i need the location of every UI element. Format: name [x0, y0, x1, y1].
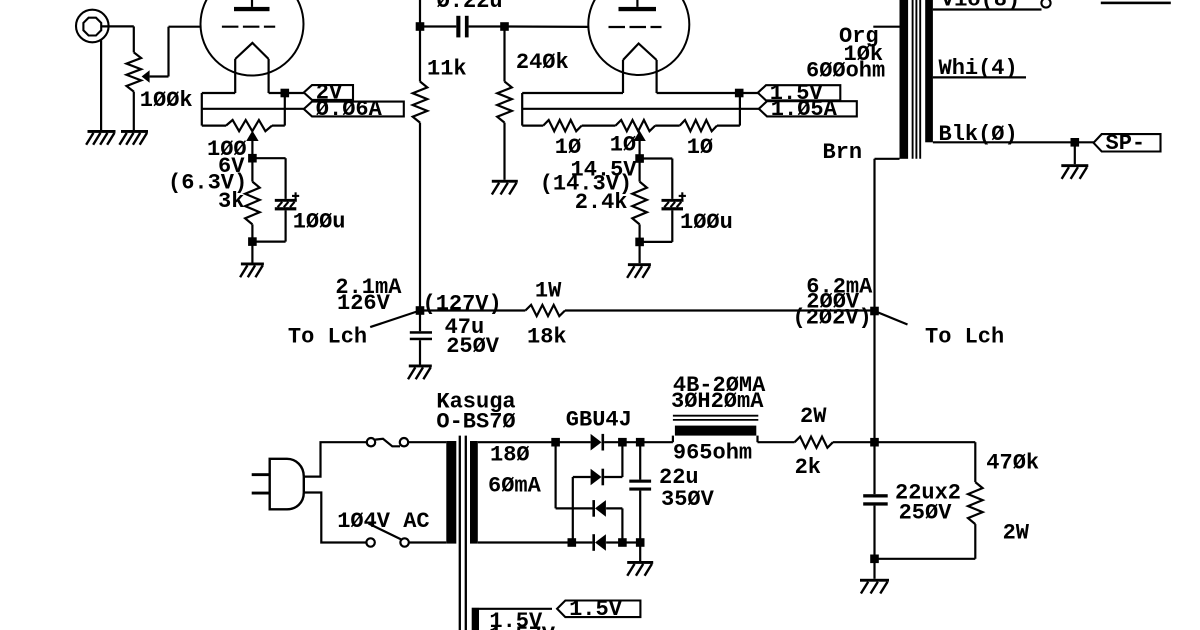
svg-text:Ø.22u: Ø.22u [437, 0, 503, 14]
svg-text:SP-: SP- [1106, 131, 1146, 156]
svg-text:Vio(8): Vio(8) [941, 0, 1020, 13]
svg-text:47Øk: 47Øk [986, 451, 1039, 476]
svg-text:126V: 126V [337, 291, 391, 316]
svg-text:6ØmA: 6ØmA [488, 474, 542, 499]
svg-text:1Ø: 1Ø [555, 135, 581, 160]
svg-text:1ØØu: 1ØØu [680, 210, 733, 235]
svg-text:11k: 11k [427, 57, 467, 82]
svg-text:2W: 2W [800, 404, 827, 429]
svg-text:O-BS7Ø: O-BS7Ø [436, 410, 515, 435]
svg-text:To Lch: To Lch [925, 325, 1004, 350]
svg-text:1ØØu: 1ØØu [293, 210, 346, 235]
svg-text:(127V): (127V) [423, 292, 502, 317]
svg-text:1Ø4V AC: 1Ø4V AC [337, 509, 429, 534]
svg-text:(2Ø2V): (2Ø2V) [793, 306, 872, 331]
svg-text:1Ø: 1Ø [610, 132, 636, 157]
svg-text:2W: 2W [1003, 521, 1030, 546]
svg-text:Whi(4): Whi(4) [939, 56, 1018, 81]
svg-text:25ØV: 25ØV [899, 501, 953, 526]
svg-text:2k: 2k [795, 455, 821, 480]
svg-text:965ohm: 965ohm [673, 441, 752, 466]
svg-text:24Øk: 24Øk [516, 50, 569, 75]
svg-text:Blk(Ø): Blk(Ø) [939, 122, 1018, 147]
svg-text:1.5V: 1.5V [569, 597, 623, 622]
svg-text:1Ø: 1Ø [687, 135, 713, 160]
svg-text:35ØV: 35ØV [661, 487, 715, 512]
svg-text:2.4k: 2.4k [575, 190, 628, 215]
svg-text:To Lch: To Lch [288, 324, 367, 349]
svg-text:1W: 1W [535, 278, 562, 303]
svg-text:18Ø: 18Ø [490, 443, 530, 468]
svg-text:6ØØohm: 6ØØohm [806, 59, 885, 84]
svg-text:25ØV: 25ØV [446, 334, 500, 359]
svg-text:3k: 3k [218, 189, 244, 214]
svg-text:Brn: Brn [823, 140, 863, 165]
svg-text:1.Ø5A: 1.Ø5A [771, 97, 838, 122]
svg-text:3ØH2ØmA: 3ØH2ØmA [671, 389, 764, 414]
svg-text:Ø.Ø6A: Ø.Ø6A [316, 97, 383, 122]
svg-text:1ØØk: 1ØØk [140, 88, 193, 113]
svg-text:18k: 18k [527, 324, 567, 349]
svg-text:1.57V: 1.57V [489, 623, 556, 630]
svg-text:GBU4J: GBU4J [566, 408, 632, 433]
